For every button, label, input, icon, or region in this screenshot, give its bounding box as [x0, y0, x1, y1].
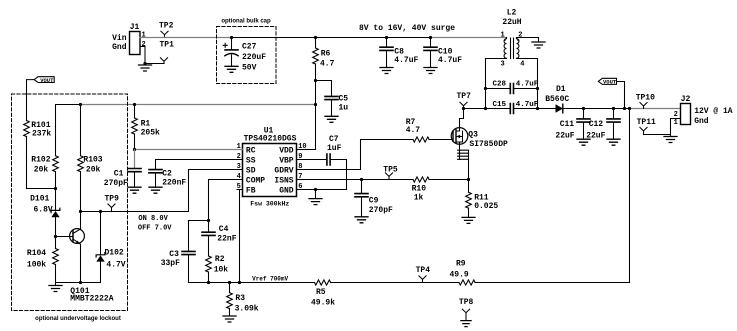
capacitor C5 1u — [316, 81, 349, 117]
svg-text:TP8: TP8 — [459, 298, 474, 307]
wire VDD gray net — [81, 104, 316, 106]
svg-text:4.7uF: 4.7uF — [516, 101, 539, 109]
wire RC gray net — [135, 149, 243, 151]
inductor L2 core — [511, 38, 514, 59]
svg-text:3.09k: 3.09k — [235, 304, 259, 313]
svg-text:Vin: Vin — [112, 34, 127, 43]
svg-text:R102: R102 — [31, 155, 50, 164]
svg-text:B560C: B560C — [545, 95, 569, 104]
junction L2 pin3 rail — [484, 107, 487, 110]
svg-text:1uF: 1uF — [327, 144, 342, 153]
svg-text:20k: 20k — [34, 166, 49, 175]
junction R6 top — [314, 36, 317, 39]
junction Q101 base — [54, 235, 57, 238]
capacitor C12 22uF — [586, 109, 620, 141]
resistor R2 10k — [206, 255, 229, 283]
svg-text:TP5: TP5 — [383, 166, 398, 175]
ground C2 — [149, 187, 162, 193]
U1 pin names — [246, 146, 294, 195]
svg-text:D1: D1 — [556, 85, 566, 94]
capacitor C28 4.7uF — [486, 80, 539, 93]
wire output rail — [563, 108, 630, 110]
svg-text:49.9: 49.9 — [450, 270, 469, 279]
Q3 package pins — [458, 144, 469, 179]
wire GDRV pin8 — [297, 140, 414, 170]
svg-text:Fsw 300kHz: Fsw 300kHz — [250, 201, 289, 208]
junction C8 — [385, 36, 388, 39]
svg-text:C11: C11 — [560, 120, 575, 129]
svg-text:R10: R10 — [412, 185, 427, 194]
svg-text:SS: SS — [246, 156, 256, 165]
junction FB — [238, 281, 241, 284]
capacitor C8 4.7uF — [380, 38, 419, 68]
svg-text:TP4: TP4 — [416, 266, 431, 275]
junction divider gray — [79, 103, 82, 106]
svg-text:C15: C15 — [493, 101, 507, 109]
svg-text:33pF: 33pF — [161, 259, 180, 268]
junction TP7 — [462, 107, 465, 110]
inductor L2 left winding — [504, 38, 506, 59]
wire feedback vertical — [629, 109, 631, 283]
capacitor C9 270pF — [355, 180, 393, 217]
wire L2 pin3 down — [486, 59, 507, 109]
svg-text:2: 2 — [674, 111, 678, 119]
capacitor C7 1uF — [327, 135, 347, 190]
svg-text:1: 1 — [674, 119, 678, 127]
svg-text:220nF: 220nF — [162, 178, 186, 187]
diode D1 B560C — [538, 85, 570, 113]
svg-text:FB: FB — [246, 186, 256, 195]
svg-text:R2: R2 — [215, 255, 225, 264]
resistor R103 20k — [78, 105, 103, 212]
svg-text:C12: C12 — [589, 120, 604, 129]
svg-text:10k: 10k — [214, 266, 229, 275]
svg-text:Q3: Q3 — [468, 131, 478, 140]
svg-text:GND: GND — [279, 186, 294, 195]
svg-text:C28: C28 — [493, 80, 507, 88]
connector J2 — [674, 95, 733, 127]
testpoint TP10 — [636, 93, 655, 108]
svg-text:VBP: VBP — [279, 156, 294, 165]
svg-text:ISNS: ISNS — [274, 176, 293, 185]
junction R1 top — [133, 103, 136, 106]
wire VDD pin10 — [297, 149, 316, 151]
ground C11 — [577, 139, 590, 145]
wire L2 pin4 down — [517, 59, 538, 109]
svg-text:C3: C3 — [169, 250, 179, 259]
svg-text:TPS40210DGS: TPS40210DGS — [244, 135, 297, 144]
junction C10 — [429, 36, 432, 39]
svg-text:COMP: COMP — [246, 176, 265, 185]
wire switch node rail — [464, 108, 556, 110]
svg-text:100k: 100k — [27, 260, 46, 269]
testpoint TP1 — [160, 41, 175, 64]
junction VDD net R6 — [314, 103, 317, 106]
svg-text:TP10: TP10 — [636, 93, 655, 102]
svg-text:R5: R5 — [316, 288, 326, 297]
resistor R5 49.9k — [311, 280, 459, 308]
svg-text:Gnd: Gnd — [694, 117, 709, 126]
svg-text:12V @ 1A: 12V @ 1A — [694, 107, 733, 116]
svg-text:270pF: 270pF — [104, 179, 128, 188]
ground C27 — [225, 66, 238, 72]
svg-text:TP2: TP2 — [159, 22, 174, 31]
svg-text:205k: 205k — [141, 128, 160, 137]
svg-text:R1: R1 — [141, 119, 151, 128]
polarity dot L2 pin2 — [517, 39, 519, 41]
svg-text:VDD: VDD — [279, 146, 294, 155]
testpoint TP7 — [457, 92, 472, 108]
testpoint TP9 — [105, 195, 120, 212]
zener D102 4.7V — [96, 212, 126, 283]
svg-text:SI7850DP: SI7850DP — [469, 140, 508, 149]
wire SD pin3 to TP9 node — [189, 170, 243, 212]
svg-text:Vref 700mV: Vref 700mV — [252, 276, 288, 283]
wire L2 pin2 to ground — [517, 38, 539, 42]
ground R3 — [223, 316, 236, 322]
svg-text:J2: J2 — [681, 95, 691, 104]
testpoint TP11 — [637, 118, 656, 135]
net label VOUT left — [27, 77, 55, 121]
svg-text:C5: C5 — [339, 94, 349, 103]
svg-text:49.9k: 49.9k — [311, 298, 335, 307]
svg-text:R9: R9 — [456, 259, 466, 268]
wire VBP pin9 to C7 — [297, 159, 327, 161]
svg-text:22nF: 22nF — [217, 235, 236, 244]
resistor R11 0.025 — [466, 180, 499, 218]
capacitor C15 4.7uF — [493, 101, 539, 114]
ground lockout — [55, 283, 57, 286]
optional undervoltage lockout dashed box — [12, 94, 128, 311]
testpoint TP4 — [416, 266, 431, 283]
junction C11 — [582, 107, 585, 110]
ground L2 pin2 — [532, 42, 545, 48]
junction C3 branch — [207, 219, 210, 222]
resistor R104 100k — [27, 237, 58, 283]
svg-text:20k: 20k — [86, 166, 101, 175]
capacitor C3 33pF — [161, 221, 209, 283]
wire divider top black segment — [56, 104, 81, 106]
wire lockout ground rail — [56, 282, 101, 284]
ground C12 — [607, 139, 620, 145]
wire GND pin6 — [297, 189, 347, 191]
svg-text:D102: D102 — [105, 249, 124, 258]
wire input rail C27 to C10 — [232, 37, 431, 39]
resistor R7 4.7 — [406, 118, 453, 142]
svg-text:270pF: 270pF — [369, 206, 393, 215]
svg-text:6.8V: 6.8V — [34, 206, 53, 215]
testpoint TP5 — [383, 166, 398, 180]
IC U1 TPS40210DGS body — [243, 126, 297, 207]
ground C10 — [424, 68, 437, 74]
svg-text:TP9: TP9 — [105, 195, 120, 204]
junction GND pin ground — [314, 188, 317, 191]
inductor L2 right winding — [517, 38, 519, 59]
net label VOUT right — [598, 78, 624, 108]
svg-text:SD: SD — [246, 166, 256, 175]
wire Q101 collector and emitter — [80, 212, 82, 283]
svg-text:50V: 50V — [242, 64, 257, 73]
U1 left pin stubs — [237, 150, 243, 190]
svg-text:R6: R6 — [321, 50, 331, 59]
svg-text:VOUT: VOUT — [603, 79, 617, 86]
svg-text:TP7: TP7 — [457, 92, 472, 101]
svg-text:22uF: 22uF — [586, 132, 605, 141]
wire J2 pin1 to ground — [671, 119, 681, 137]
testpoint TP8 — [459, 298, 474, 320]
wire FB pin5 down — [240, 190, 243, 283]
testpoint TP2 — [159, 22, 174, 38]
wire TP11 to J2 gnd — [644, 134, 671, 136]
svg-text:TP1: TP1 — [160, 41, 175, 50]
svg-text:optional undervoltage lockout: optional undervoltage lockout — [35, 316, 121, 322]
junction R3 top — [228, 281, 231, 284]
svg-text:TP11: TP11 — [637, 118, 656, 127]
svg-text:1k: 1k — [414, 194, 424, 203]
svg-text:MMBT2222A: MMBT2222A — [70, 295, 113, 304]
junction C9 — [360, 178, 363, 181]
svg-text:22uF: 22uF — [555, 132, 574, 141]
junction C12 — [612, 107, 615, 110]
junction C5 branch — [314, 79, 317, 82]
junction VOUT stem — [623, 107, 626, 110]
transistor Q101 — [56, 229, 114, 304]
svg-text:4.7: 4.7 — [320, 59, 335, 68]
junction Q101 emitter gnd rail — [79, 281, 82, 284]
svg-text:GDRV: GDRV — [274, 166, 293, 175]
capacitor C1 270pF — [104, 150, 141, 189]
svg-text:4.7uF: 4.7uF — [394, 56, 418, 65]
zener D101 6.8V — [30, 195, 60, 237]
svg-text:8V to 16V, 40V surge: 8V to 16V, 40V surge — [359, 24, 455, 33]
svg-text:C4: C4 — [219, 225, 229, 234]
connector J1 — [112, 23, 146, 55]
capacitor C4 22nF — [202, 225, 237, 256]
svg-text:D101: D101 — [30, 195, 49, 204]
svg-text:4.7: 4.7 — [406, 126, 421, 135]
wire ISNS pin7 — [297, 179, 414, 181]
junction R2 bottom — [207, 281, 210, 284]
resistor R1 205k — [132, 105, 160, 150]
ground J1 — [139, 65, 152, 71]
junction feedback tap — [628, 107, 631, 110]
svg-text:OFF 7.0V: OFF 7.0V — [138, 224, 172, 232]
svg-text:4.7uF: 4.7uF — [438, 56, 462, 65]
wire COMP pin4 down — [209, 180, 243, 233]
svg-text:R103: R103 — [83, 155, 102, 164]
svg-text:237k: 237k — [32, 129, 51, 138]
svg-text:1: 1 — [142, 32, 146, 40]
resistor R102 20k — [31, 105, 58, 211]
ground U1 GND — [315, 190, 317, 199]
capacitor C10 4.7uF — [424, 38, 462, 68]
svg-text:L2: L2 — [507, 9, 517, 18]
resistor R101 237k — [24, 121, 56, 189]
wire input rail gray C10 to L2 — [431, 37, 507, 39]
svg-text:C9: C9 — [369, 197, 379, 206]
svg-text:Gnd: Gnd — [112, 43, 127, 52]
wire SS pin2 to C2 — [156, 160, 243, 170]
junction L2 pin4 rail — [536, 107, 539, 110]
svg-text:0.025: 0.025 — [474, 202, 498, 211]
junction RC C1 — [133, 148, 136, 151]
resistor R3 3.09k — [227, 283, 259, 316]
svg-text:VOUT: VOUT — [40, 77, 54, 84]
capacitor C11 22uF — [555, 109, 590, 141]
svg-text:R104: R104 — [27, 249, 46, 258]
ground C8 — [380, 68, 393, 74]
transistor Q3 — [451, 128, 508, 149]
junction C27 — [230, 36, 233, 39]
wire input rail gray J1 to C27 — [140, 37, 232, 39]
wire Q3 drain — [460, 109, 464, 128]
junction Q3 source ISNS — [467, 178, 470, 181]
wire J1 pin2 to ground and TP1 — [140, 47, 164, 64]
optional bulk cap dashed box — [217, 27, 277, 84]
polarity dot L2 pin1 — [504, 39, 506, 41]
svg-text:C1: C1 — [114, 169, 124, 178]
resistor R9 49.9 — [450, 259, 630, 285]
svg-text:C27: C27 — [242, 43, 257, 52]
svg-text:ON 8.0V: ON 8.0V — [138, 215, 168, 223]
capacitor C27 220uF 50V — [223, 38, 266, 73]
resistor R10 1k — [412, 177, 469, 203]
junction J1 pin2 — [143, 62, 146, 65]
junction C28 right — [536, 87, 539, 90]
svg-text:1: 1 — [500, 31, 504, 39]
svg-text:4.7V: 4.7V — [106, 260, 125, 269]
svg-text:R3: R3 — [235, 294, 245, 303]
resistor R6 4.7 — [313, 38, 335, 150]
capacitor C2 220nF — [149, 170, 186, 188]
svg-text:4: 4 — [520, 61, 524, 69]
svg-text:4.7uF: 4.7uF — [516, 80, 539, 88]
wire FB Vref net — [189, 282, 315, 284]
svg-text:2: 2 — [518, 31, 522, 39]
ground C5 — [325, 116, 338, 122]
wire TP9 node — [81, 211, 189, 213]
U1 pin numbers — [237, 143, 307, 191]
svg-text:3: 3 — [500, 61, 504, 69]
ground J2 — [664, 137, 677, 143]
junction D102 TP9 — [99, 210, 102, 213]
ground C9 — [355, 217, 368, 223]
ground C1 — [128, 187, 141, 193]
svg-text:RC: RC — [246, 146, 256, 155]
svg-text:22uH: 22uH — [502, 18, 521, 27]
svg-text:C7: C7 — [329, 135, 339, 144]
junction collector TP9 — [79, 210, 82, 213]
wire output rail gray to J2 — [630, 108, 681, 110]
svg-text:J1: J1 — [130, 23, 140, 32]
inductor L2 labels — [500, 9, 524, 69]
ground TP8 — [461, 321, 471, 327]
svg-text:C2: C2 — [162, 170, 172, 179]
svg-text:1u: 1u — [339, 103, 349, 112]
junction R101 into divider — [54, 187, 57, 190]
svg-text:220uF: 220uF — [242, 53, 266, 62]
svg-text:optional bulk cap: optional bulk cap — [221, 19, 271, 25]
ground R11 — [462, 217, 475, 223]
junction C28 left — [484, 87, 487, 90]
